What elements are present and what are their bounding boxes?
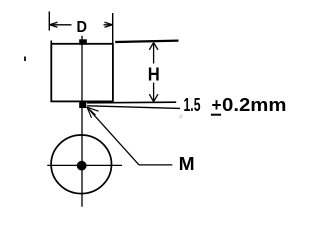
component body outline (side view rectangle) xyxy=(51,44,113,102)
bottom view circle xyxy=(51,135,111,194)
D extension line right xyxy=(112,13,114,44)
faint smudge xyxy=(179,115,183,119)
D extension line left xyxy=(48,12,50,31)
body top-left corner stub xyxy=(50,41,52,49)
svg-text:D: D xyxy=(76,19,87,36)
sleeve reference line (lower line to 1.5mm note) xyxy=(87,106,180,109)
center lead dot of bottom view xyxy=(77,161,87,171)
svg-text:+: + xyxy=(212,95,222,115)
centerline (vertical axis through body and bottom view) xyxy=(81,36,83,207)
bottom sleeve mark (black square below bottom edge) xyxy=(79,101,86,108)
top lead mark (black square on top edge) xyxy=(79,39,87,44)
underline of plus-minus xyxy=(211,114,221,116)
svg-text:M: M xyxy=(179,154,195,174)
D dimension line right segment with arrow xyxy=(104,22,113,27)
leader line from sleeve mark to label M xyxy=(87,107,173,165)
stray speck xyxy=(24,57,26,62)
svg-text:0.2mm: 0.2mm xyxy=(222,95,287,115)
D dimension line left segment with arrow xyxy=(50,22,72,27)
H dimension line with arrows xyxy=(149,43,158,102)
svg-text:1.5: 1.5 xyxy=(184,95,201,115)
crosshair horizontal line of bottom view xyxy=(47,164,122,166)
leader arrowhead barbs at sleeve mark xyxy=(87,107,99,118)
H extension line top xyxy=(115,41,178,42)
svg-text:H: H xyxy=(148,65,160,85)
H extension line bottom (continuation of body bottom edge) xyxy=(87,101,176,104)
